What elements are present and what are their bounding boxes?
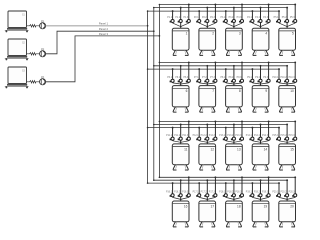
junction: unit 11 taps bbox=[172, 127, 174, 129]
unit 7 left foot bbox=[200, 107, 204, 112]
unit 6 terminal 3 bbox=[183, 77, 190, 82]
svg-text:P2.1: P2.1 bbox=[194, 17, 199, 19]
svg-text:10: 10 bbox=[290, 89, 294, 93]
unit 2 left foot bbox=[200, 50, 204, 55]
junction: unit 9 Y vertex bbox=[260, 83, 261, 84]
unit 8 Y junction wires bbox=[226, 83, 242, 84]
junction: unit 20 taps bbox=[278, 182, 280, 184]
svg-text:1: 1 bbox=[186, 32, 188, 36]
unit 15 tank body bbox=[279, 144, 296, 165]
unit 10 terminal 1 bbox=[272, 77, 280, 82]
svg-text:P11.2: P11.2 bbox=[174, 135, 181, 137]
unit 8 drop wire L bbox=[225, 69, 227, 83]
unit 4 Y junction wires bbox=[252, 23, 268, 27]
wire S2 to meter M2 (flex) bbox=[27, 53, 40, 56]
unit 8 tank body bbox=[226, 86, 243, 107]
unit 5 bbox=[274, 4, 297, 56]
unit 9 terminal 2 bbox=[255, 77, 262, 82]
unit 16 terminal 1 bbox=[166, 191, 174, 196]
svg-text:P3.2: P3.2 bbox=[229, 17, 234, 19]
unit 4 drop wire C bbox=[260, 8, 262, 29]
unit 19 bbox=[246, 176, 270, 227]
svg-text:Panel 1: Panel 1 bbox=[99, 22, 109, 26]
svg-text:P17.3: P17.3 bbox=[209, 191, 216, 193]
svg-text:P16.1: P16.1 bbox=[166, 191, 173, 193]
unit 16 right foot bbox=[185, 222, 189, 227]
unit 1 right foot bbox=[185, 50, 189, 55]
svg-text:7: 7 bbox=[212, 89, 214, 93]
unit 5 drop wire L bbox=[278, 11, 280, 23]
wire S3 to meter M3 (flex) bbox=[27, 81, 40, 84]
junction: unit 18 taps bbox=[225, 182, 227, 184]
junction: unit 13 taps bbox=[225, 127, 227, 129]
svg-text:P5.2: P5.2 bbox=[282, 17, 287, 19]
unit 14 terminal 3 bbox=[262, 135, 270, 140]
unit 17 right foot bbox=[211, 222, 215, 227]
svg-text:8: 8 bbox=[239, 89, 241, 93]
riser R3 (Panel 3) bbox=[158, 5, 160, 178]
unit 10 drop wire C bbox=[286, 66, 288, 86]
unit 7 drop wire L bbox=[198, 69, 200, 83]
unit 9 drop wire R bbox=[268, 62, 270, 83]
unit 5 terminal 3 bbox=[290, 17, 297, 22]
svg-text:P16.2: P16.2 bbox=[174, 191, 181, 193]
unit 5 drop wire C bbox=[286, 8, 288, 29]
unit 20 terminal 1 bbox=[272, 191, 280, 196]
junction: unit 5 Y vertex bbox=[286, 26, 287, 27]
source S3 base pallet bbox=[5, 84, 29, 88]
svg-text:P16.3: P16.3 bbox=[182, 191, 189, 193]
unit 15 terminal 2 bbox=[280, 135, 288, 140]
unit 8 terminal 1 bbox=[220, 77, 227, 82]
unit 15 drop wire R bbox=[294, 121, 296, 140]
svg-text:P12.3: P12.3 bbox=[209, 135, 216, 137]
unit 6 Y junction wires bbox=[173, 83, 189, 84]
unit 9 bbox=[247, 61, 270, 112]
svg-text:P8.1: P8.1 bbox=[220, 77, 225, 79]
junction: Panel 3 feeder at R3 bbox=[159, 35, 161, 37]
unit 12 left foot bbox=[200, 165, 204, 170]
svg-text:P7.1: P7.1 bbox=[194, 77, 199, 79]
svg-text:P6.1: P6.1 bbox=[167, 77, 172, 79]
unit 18 drop wire L bbox=[225, 183, 227, 197]
unit 19 terminal 2 bbox=[254, 191, 262, 196]
unit 20 terminal 2 bbox=[280, 191, 288, 196]
junction: unit 10 taps bbox=[278, 68, 280, 70]
unit 6 terminal 2 bbox=[175, 77, 182, 82]
unit 14 drop wire R bbox=[268, 121, 270, 140]
junction: unit 8 taps bbox=[225, 68, 227, 70]
svg-text:P9.3: P9.3 bbox=[263, 77, 268, 79]
unit 1 drop wire L bbox=[172, 11, 174, 23]
unit 3 terminal 2 bbox=[229, 17, 236, 22]
unit 4 bbox=[247, 4, 270, 56]
svg-text:P13.2: P13.2 bbox=[227, 135, 234, 137]
unit 11 left foot bbox=[173, 165, 177, 170]
unit 3 left foot bbox=[226, 50, 230, 55]
unit 12 Y junction wires bbox=[199, 141, 215, 143]
svg-text:14: 14 bbox=[264, 147, 268, 151]
svg-text:P12.2: P12.2 bbox=[201, 135, 208, 137]
unit 14 left foot bbox=[253, 165, 257, 170]
junction: unit 11 Y vertex bbox=[180, 142, 181, 143]
unit 18 bbox=[219, 176, 243, 227]
svg-text:2: 2 bbox=[212, 32, 214, 36]
unit 6 bbox=[167, 61, 190, 112]
unit 13 bbox=[219, 120, 243, 170]
svg-text:P19.2: P19.2 bbox=[254, 191, 261, 193]
svg-text:20: 20 bbox=[290, 204, 294, 208]
unit 9 terminal 3 bbox=[263, 77, 270, 82]
row 1 bus B (Panel 2, middle) bbox=[154, 7, 287, 9]
unit 13 terminal 2 bbox=[227, 135, 235, 140]
unit 5 tank body bbox=[279, 28, 296, 50]
svg-text:P18.1: P18.1 bbox=[219, 191, 226, 193]
svg-text:P14.2: P14.2 bbox=[254, 135, 261, 137]
junction: riser R1 at row 4 bus C bbox=[147, 182, 149, 184]
unit 12 terminal 1 bbox=[193, 135, 201, 140]
unit 13 left foot bbox=[226, 165, 230, 170]
unit 2 bbox=[194, 4, 217, 56]
svg-text:P7.2: P7.2 bbox=[202, 77, 207, 79]
unit 10 terminal 2 bbox=[280, 77, 288, 82]
unit 19 tank body bbox=[252, 201, 269, 222]
unit 12 drop wire C bbox=[206, 125, 208, 144]
unit 8 terminal 2 bbox=[229, 77, 236, 82]
junction: unit 12 taps bbox=[198, 127, 200, 129]
unit 5 right foot bbox=[291, 50, 295, 55]
unit 14 tank body bbox=[252, 144, 269, 165]
junction: unit 9 taps bbox=[251, 68, 253, 70]
svg-text:4: 4 bbox=[265, 32, 267, 36]
unit 9 tank body bbox=[252, 86, 269, 107]
junction: Panel 1 feeder at R1 bbox=[147, 25, 149, 27]
unit 12 drop wire L bbox=[198, 128, 200, 141]
svg-text:P13.1: P13.1 bbox=[219, 135, 226, 137]
svg-text:11: 11 bbox=[184, 147, 188, 151]
svg-text:12: 12 bbox=[210, 147, 214, 151]
unit 2 Y junction wires bbox=[199, 23, 215, 27]
unit 20 tank body bbox=[279, 201, 296, 222]
unit 20 Y junction wires bbox=[279, 197, 295, 199]
unit 16 Y junction wires bbox=[173, 197, 189, 199]
unit 18 drop wire C bbox=[233, 180, 235, 201]
wire S1 to meter M1 (flex) bbox=[27, 25, 40, 28]
svg-text:P14.1: P14.1 bbox=[246, 135, 253, 137]
unit 8 drop wire R bbox=[241, 62, 243, 83]
unit 11 terminal 2 bbox=[174, 135, 182, 140]
unit 2 terminal 1 bbox=[194, 17, 201, 22]
unit 16 terminal 2 bbox=[174, 191, 182, 196]
svg-text:P11.1: P11.1 bbox=[166, 135, 173, 137]
unit 1 terminal 2 bbox=[175, 17, 182, 22]
svg-text:P1.1: P1.1 bbox=[167, 17, 172, 19]
unit 12 terminal 2 bbox=[201, 135, 209, 140]
unit 10 Y junction wires bbox=[279, 83, 295, 84]
junction: unit 4 Y vertex bbox=[260, 26, 261, 27]
unit 13 right foot bbox=[238, 165, 242, 170]
svg-text:P17.1: P17.1 bbox=[193, 191, 200, 193]
unit 13 tank body bbox=[226, 144, 243, 165]
junction: unit 16 taps bbox=[172, 182, 174, 184]
source box S3 bbox=[8, 67, 27, 83]
junction: unit 18 Y vertex bbox=[233, 199, 234, 200]
unit 14 terminal 1 bbox=[246, 135, 254, 140]
unit 11 Y junction wires bbox=[173, 141, 189, 143]
unit 2 drop wire R bbox=[214, 5, 216, 24]
unit 15 bbox=[272, 120, 296, 170]
unit 9 right foot bbox=[265, 107, 269, 112]
svg-text:P19.3: P19.3 bbox=[262, 191, 269, 193]
junction: unit 14 taps bbox=[251, 127, 253, 129]
row 3 bus C (Panel 1, bottom) bbox=[148, 127, 279, 129]
row 3 bus B (Panel 2, middle) bbox=[154, 124, 287, 126]
unit 7 Y junction wires bbox=[199, 83, 215, 84]
unit 17 terminal 2 bbox=[201, 191, 209, 196]
svg-text:P1.2: P1.2 bbox=[175, 17, 180, 19]
unit 1 terminal 1 bbox=[167, 17, 174, 22]
svg-text:P17.2: P17.2 bbox=[201, 191, 208, 193]
unit 11 drop wire L bbox=[172, 128, 174, 141]
junction: unit 2 taps bbox=[198, 10, 200, 12]
unit 10 bbox=[272, 61, 296, 112]
svg-text:P18.2: P18.2 bbox=[227, 191, 234, 193]
unit 11 drop wire C bbox=[180, 125, 182, 144]
row 2 bus A (Panel 3, top) bbox=[159, 61, 295, 63]
unit 10 tank body bbox=[279, 86, 296, 107]
svg-text:P6.2: P6.2 bbox=[175, 77, 180, 79]
junction: unit 7 taps bbox=[198, 68, 200, 70]
junction: unit 7 Y vertex bbox=[207, 83, 208, 84]
junction: unit 1 Y vertex bbox=[180, 26, 181, 27]
unit 14 terminal 2 bbox=[254, 135, 262, 140]
junction: unit 2 Y vertex bbox=[207, 26, 208, 27]
unit 11 drop wire R bbox=[188, 121, 190, 140]
svg-text:P2.2: P2.2 bbox=[202, 17, 207, 19]
unit 2 drop wire L bbox=[198, 11, 200, 23]
svg-text:15: 15 bbox=[290, 147, 294, 151]
unit 1 terminal 3 bbox=[183, 17, 190, 22]
svg-text:Panel 2: Panel 2 bbox=[99, 27, 109, 31]
meter M1 bbox=[40, 20, 46, 29]
unit 18 terminal 2 bbox=[227, 191, 235, 196]
svg-text:P20.2: P20.2 bbox=[280, 191, 287, 193]
unit 13 terminal 3 bbox=[235, 135, 243, 140]
junction: riser R1 at row 1 bus C bbox=[147, 10, 149, 12]
unit 18 terminal 1 bbox=[219, 191, 227, 196]
unit 16 terminal 3 bbox=[182, 191, 190, 196]
source S1 base pallet bbox=[5, 28, 29, 32]
unit 13 drop wire C bbox=[233, 125, 235, 144]
unit 7 drop wire R bbox=[214, 62, 216, 83]
unit 18 terminal 3 bbox=[235, 191, 243, 196]
svg-text:P19.1: P19.1 bbox=[246, 191, 253, 193]
junction: unit 4 taps bbox=[251, 10, 253, 12]
junction: unit 1 taps bbox=[172, 10, 174, 12]
unit 19 Y junction wires bbox=[252, 197, 268, 199]
unit 10 drop wire L bbox=[278, 69, 280, 83]
unit 14 Y junction wires bbox=[252, 141, 268, 143]
unit 3 drop wire L bbox=[225, 11, 227, 23]
unit 10 right foot bbox=[291, 107, 295, 112]
unit 18 drop wire R bbox=[241, 177, 243, 197]
unit 12 right foot bbox=[211, 165, 215, 170]
svg-text:P13.3: P13.3 bbox=[235, 135, 242, 137]
unit 4 terminal 1 bbox=[247, 17, 254, 22]
unit 19 terminal 1 bbox=[246, 191, 254, 196]
unit 9 left foot bbox=[253, 107, 257, 112]
svg-text:P4.1: P4.1 bbox=[247, 17, 252, 19]
svg-text:18: 18 bbox=[237, 204, 241, 208]
unit 11 bbox=[166, 120, 190, 170]
junction: unit 16 Y vertex bbox=[180, 199, 181, 200]
junction: unit 14 Y vertex bbox=[260, 142, 261, 143]
unit 6 left foot bbox=[173, 107, 177, 112]
source box S2 bbox=[8, 39, 27, 55]
svg-text:P14.3: P14.3 bbox=[262, 135, 269, 137]
junction: unit 12 Y vertex bbox=[207, 142, 208, 143]
unit 7 tank body bbox=[199, 86, 216, 107]
unit 8 right foot bbox=[238, 107, 242, 112]
source S2 base pallet bbox=[5, 56, 29, 60]
svg-text:9: 9 bbox=[265, 89, 267, 93]
unit 20 drop wire R bbox=[294, 177, 296, 197]
junction: unit 10 Y vertex bbox=[286, 83, 287, 84]
unit 6 drop wire C bbox=[180, 66, 182, 86]
junction: riser R3 at row 3 bus A bbox=[159, 121, 161, 123]
unit 4 right foot bbox=[265, 50, 269, 55]
unit 5 terminal 2 bbox=[282, 17, 289, 22]
row 4 bus A (Panel 3, top) bbox=[159, 176, 295, 178]
unit 19 left foot bbox=[253, 222, 257, 227]
svg-text:P12.1: P12.1 bbox=[193, 135, 200, 137]
junction: unit 17 Y vertex bbox=[207, 199, 208, 200]
unit 14 right foot bbox=[265, 165, 269, 170]
svg-text:P4.3: P4.3 bbox=[263, 17, 268, 19]
unit 16 drop wire C bbox=[180, 180, 182, 201]
svg-text:P20.3: P20.3 bbox=[289, 191, 296, 193]
unit 2 terminal 2 bbox=[202, 17, 209, 22]
junction: riser R2 at row 2 bus B bbox=[153, 65, 155, 67]
unit 1 drop wire R bbox=[188, 5, 190, 24]
unit 11 terminal 1 bbox=[166, 135, 174, 140]
unit 19 drop wire R bbox=[268, 177, 270, 197]
junction: unit 6 taps bbox=[172, 68, 174, 70]
junction: unit 19 Y vertex bbox=[260, 199, 261, 200]
svg-text:P15.2: P15.2 bbox=[280, 135, 287, 137]
unit 3 terminal 3 bbox=[237, 17, 244, 22]
unit 17 bbox=[193, 176, 217, 227]
unit 12 bbox=[193, 120, 217, 170]
svg-text:19: 19 bbox=[264, 204, 268, 208]
unit 5 drop wire R bbox=[294, 5, 296, 24]
unit 10 terminal 3 bbox=[289, 77, 297, 82]
unit 16 tank body bbox=[172, 201, 189, 222]
unit 17 tank body bbox=[199, 201, 216, 222]
unit 18 Y junction wires bbox=[226, 197, 242, 199]
unit 2 drop wire C bbox=[206, 8, 208, 29]
svg-text:P6.3: P6.3 bbox=[183, 77, 188, 79]
junction: unit 19 taps bbox=[251, 182, 253, 184]
junction: unit 6 Y vertex bbox=[180, 83, 181, 84]
unit 5 left foot bbox=[280, 50, 284, 55]
unit 1 Y junction wires bbox=[173, 23, 189, 27]
unit 13 terminal 1 bbox=[219, 135, 227, 140]
junction: riser R3 at row 4 bus A bbox=[159, 177, 161, 179]
unit 19 drop wire C bbox=[260, 180, 262, 201]
svg-text:P5.1: P5.1 bbox=[274, 17, 279, 19]
svg-text:5: 5 bbox=[292, 32, 294, 36]
svg-text:P18.3: P18.3 bbox=[235, 191, 242, 193]
junction: unit 17 taps bbox=[198, 182, 200, 184]
unit 6 drop wire L bbox=[172, 69, 174, 83]
unit 6 right foot bbox=[185, 107, 189, 112]
unit 15 left foot bbox=[280, 165, 284, 170]
unit 14 drop wire C bbox=[260, 125, 262, 144]
junction: unit 3 Y vertex bbox=[233, 26, 234, 27]
unit 2 terminal 3 bbox=[210, 17, 217, 22]
unit 11 right foot bbox=[185, 165, 189, 170]
unit 17 left foot bbox=[200, 222, 204, 227]
unit 17 Y junction wires bbox=[199, 197, 215, 199]
unit 12 tank body bbox=[199, 144, 216, 165]
unit 3 right foot bbox=[238, 50, 242, 55]
row 3 bus A (Panel 3, top) bbox=[159, 120, 295, 122]
unit 12 terminal 3 bbox=[209, 135, 217, 140]
unit 13 Y junction wires bbox=[226, 141, 242, 143]
svg-text:P1.3: P1.3 bbox=[183, 17, 188, 19]
unit 10 drop wire R bbox=[294, 62, 296, 83]
svg-text:P10.2: P10.2 bbox=[280, 77, 287, 79]
unit 6 drop wire R bbox=[188, 62, 190, 83]
unit 7 bbox=[194, 61, 217, 112]
row 4 bus C (Panel 1, bottom) bbox=[148, 182, 279, 184]
row 2 bus C (Panel 1, bottom) bbox=[148, 68, 279, 70]
unit 6 terminal 1 bbox=[167, 77, 174, 82]
unit 4 terminal 3 bbox=[263, 17, 270, 22]
unit 5 terminal 1 bbox=[274, 17, 281, 22]
unit 14 drop wire L bbox=[251, 128, 253, 141]
junction: riser R3 at row 2 bus A bbox=[159, 62, 161, 64]
unit 7 drop wire C bbox=[206, 66, 208, 86]
svg-text:P2.3: P2.3 bbox=[210, 17, 215, 19]
svg-text:Panel 3: Panel 3 bbox=[99, 32, 109, 36]
unit 19 terminal 3 bbox=[262, 191, 270, 196]
unit 4 drop wire L bbox=[251, 11, 253, 23]
unit 15 drop wire L bbox=[278, 128, 280, 141]
svg-text:P11.3: P11.3 bbox=[182, 135, 189, 137]
unit 3 drop wire R bbox=[241, 5, 243, 24]
unit 2 tank body bbox=[199, 28, 216, 50]
junction: unit 3 taps bbox=[225, 10, 227, 12]
unit 17 drop wire C bbox=[206, 180, 208, 201]
unit 20 left foot bbox=[280, 222, 284, 227]
unit 4 terminal 2 bbox=[255, 17, 262, 22]
unit 9 terminal 1 bbox=[247, 77, 254, 82]
svg-text:P8.3: P8.3 bbox=[237, 77, 242, 79]
unit 18 right foot bbox=[238, 222, 242, 227]
svg-text:P8.2: P8.2 bbox=[229, 77, 234, 79]
junction: riser R2 at row 4 bus B bbox=[153, 179, 155, 181]
svg-text:3: 3 bbox=[239, 32, 241, 36]
unit 14 bbox=[246, 120, 270, 170]
svg-text:P15.3: P15.3 bbox=[289, 135, 296, 137]
unit 7 terminal 3 bbox=[210, 77, 217, 82]
row 2 bus B (Panel 2, middle) bbox=[154, 65, 287, 67]
unit 3 bbox=[220, 4, 243, 56]
feeder wire Panel 3 (M3 to riser R3) bbox=[46, 36, 160, 82]
junction: riser R1 at row 2 bus C bbox=[147, 68, 149, 70]
